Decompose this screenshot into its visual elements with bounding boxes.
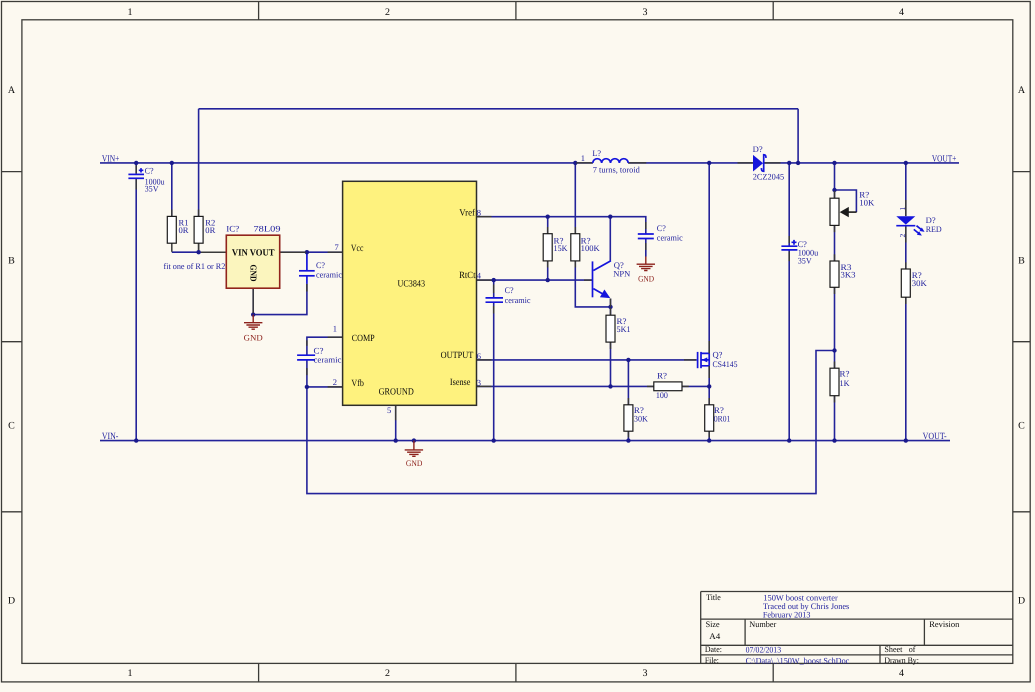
zone tick bottom 3|4 [772, 663, 774, 682]
wire pot to R3 [834, 225, 836, 261]
svg-text:VIN VOUT: VIN VOUT [232, 248, 275, 258]
wire RtCt rail [477, 279, 593, 281]
svg-text:2: 2 [898, 234, 907, 238]
svg-text:B: B [8, 256, 15, 267]
wire top loop left drop to R2 [198, 109, 200, 217]
junction (834.5,190) [832, 188, 836, 192]
svg-text:C?: C? [145, 165, 154, 175]
svg-text:4: 4 [899, 668, 904, 679]
svg-text:0R: 0R [179, 225, 189, 235]
svg-text:C?: C? [316, 260, 325, 270]
wire Vcc net 78L09 to UC3843 [280, 251, 343, 253]
svg-text:1: 1 [128, 668, 133, 679]
svg-text:C: C [1018, 421, 1025, 432]
wire R3 bottom to R1K [834, 287, 836, 368]
zone tick right B|C [1013, 341, 1030, 343]
wire inductor to diode [628, 162, 753, 164]
svg-text:Revision: Revision [929, 619, 960, 629]
svg-text:8: 8 [477, 208, 481, 218]
zone labels left [8, 85, 16, 607]
svg-text:C?: C? [657, 223, 666, 233]
inductor L1 7 turns toroid [576, 148, 646, 175]
svg-text:3K3: 3K3 [841, 270, 856, 280]
svg-text:GND: GND [249, 265, 259, 282]
wire input cap top lead [135, 163, 137, 174]
wire R1 top lead [171, 163, 173, 217]
wire VOUT+ rail [764, 162, 960, 164]
svg-text:Size: Size [706, 619, 720, 629]
svg-text:COMP: COMP [352, 334, 375, 344]
svg-text:C?: C? [505, 285, 514, 295]
zone tick top 3|4 [772, 2, 774, 20]
svg-text:R?: R? [657, 371, 667, 381]
wire top loop horizontal [199, 108, 799, 110]
capacitor C1 input electrolytic 1000u 35V [128, 165, 165, 193]
zone tick bottom 1|2 [258, 663, 260, 682]
resistor R? 5K1 [606, 308, 631, 349]
junction (709.2,386.4) [707, 384, 711, 388]
wire R15K bottom lead [547, 261, 549, 280]
svg-text:Drawn By:: Drawn By: [884, 655, 919, 665]
junction (905.8,440.6) [904, 438, 908, 442]
wire NPN collector to Vref [609, 217, 611, 261]
svg-text:D?: D? [753, 144, 763, 154]
wire OUTPUT rail to gate [477, 359, 697, 361]
svg-text:GND: GND [638, 274, 654, 284]
zone tick bottom 2|3 [515, 663, 517, 682]
junction (547.7,216.7) [546, 215, 550, 219]
svg-text:0R: 0R [205, 225, 215, 235]
svg-text:Vref: Vref [459, 208, 475, 218]
svg-text:2CZ2045: 2CZ2045 [753, 172, 785, 182]
wire R1 bottom to 78L09 VIN [172, 251, 199, 253]
svg-text:NPN: NPN [613, 268, 630, 278]
zone labels bottom [128, 668, 905, 679]
capacitor C? ceramic RtCt [486, 285, 531, 314]
wire Vref rail [477, 217, 646, 234]
junction (575.3,162.9) [573, 161, 577, 165]
svg-text:B: B [1018, 256, 1025, 267]
resistor R? 30K LED chain [901, 262, 927, 304]
wire output cap top lead [788, 163, 790, 246]
transistor Q? CS4145 MOSFET [684, 341, 738, 378]
wire LED top lead [905, 163, 907, 216]
junction (628.4,440.6) [626, 438, 630, 442]
svg-text:C:\Data\..\150W_boost.SchDoc: C:\Data\..\150W_boost.SchDoc [746, 655, 850, 665]
zone tick left C|D [2, 511, 22, 513]
junction (198.6,252.2) [196, 250, 200, 254]
wire input cap bottom lead to VIN- rail [135, 179, 137, 441]
zone tick top 1|2 [258, 2, 260, 20]
junction (610.3,216.7) [608, 215, 612, 219]
wire UC3843 pin5 to ground [395, 405, 397, 440]
resistor R? 100K [571, 227, 601, 268]
junction (306.9,252.2) [305, 250, 309, 254]
wire R5K1 bottom to Isense [610, 342, 612, 386]
junction (171.8,162.9) [170, 161, 174, 165]
svg-text:3: 3 [643, 7, 648, 18]
wire 78L09 GND pin [252, 288, 254, 314]
junction (253.2,314.6) [251, 312, 255, 316]
wire Vcc bypass cap top [306, 253, 308, 271]
svg-text:A4: A4 [709, 631, 721, 641]
wire LED cathode to R30K [905, 227, 907, 269]
wire R2 bottom lead [198, 243, 200, 252]
svg-text:30K: 30K [912, 278, 928, 288]
svg-text:OUTPUT: OUTPUT [441, 351, 474, 361]
wire Vcc bypass cap bottom [306, 276, 308, 284]
svg-text:D: D [8, 596, 15, 607]
wire Vref cap to ground [645, 238, 647, 256]
svg-text:ceramic: ceramic [657, 233, 683, 243]
wire MOSFET drain to rail [708, 163, 710, 354]
svg-text:1K: 1K [840, 378, 851, 388]
junction (798.1,162.9) [796, 161, 800, 165]
svg-text:Date:: Date: [705, 644, 722, 654]
svg-text:Isense: Isense [450, 378, 471, 388]
wire R1K bottom lead [834, 396, 836, 441]
junction (547.7,280.1) [546, 278, 550, 282]
svg-text:5K1: 5K1 [617, 324, 631, 334]
zone tick right C|D [1013, 511, 1030, 513]
svg-text:GND: GND [406, 458, 423, 468]
svg-text:Vfb: Vfb [351, 379, 364, 389]
svg-text:VOUT+: VOUT+ [932, 154, 957, 164]
junction (709.2,162.9) [707, 161, 711, 165]
wire VIN+ rail [100, 162, 593, 164]
svg-text:1: 1 [581, 153, 585, 163]
wire COMP cap to Vfb [306, 360, 308, 387]
svg-text:Q?: Q? [713, 349, 723, 359]
wire output cap bottom lead [788, 251, 790, 441]
diode D? 2CZ2045 [738, 144, 785, 182]
transistor Q? NPN [584, 260, 630, 307]
svg-text:C: C [8, 421, 15, 432]
wire COMP pin [307, 337, 343, 355]
junction (834.5,440.6) [832, 438, 836, 442]
title block frame [701, 592, 1013, 664]
svg-text:7 turns, toroid: 7 turns, toroid [593, 164, 641, 174]
svg-text:fit one of R1 or R2: fit one of R1 or R2 [164, 261, 226, 271]
svg-text:1: 1 [128, 7, 133, 18]
svg-text:2: 2 [385, 668, 390, 679]
zone tick left A|B [2, 171, 22, 173]
capacitor C? ceramic COMP [297, 340, 342, 375]
junction (789.2,162.9) [787, 161, 791, 165]
junction (834.5,350.5) [832, 348, 836, 352]
junction (493.7,440.6) [492, 438, 496, 442]
svg-text:GROUND: GROUND [379, 387, 414, 397]
capacitor C? ceramic Vref bypass [638, 222, 683, 250]
title block values [746, 593, 850, 666]
svg-text:File:: File: [705, 655, 719, 665]
wire top loop right drop to VOUT+ [797, 109, 799, 163]
wire MOSFET source to R0R01 [708, 366, 710, 405]
svg-text:100: 100 [656, 390, 668, 400]
svg-text:30K: 30K [634, 413, 649, 423]
junction (413.9,440.6) [412, 438, 416, 442]
wire R30K bottom lead [627, 431, 629, 440]
svg-text:Number: Number [749, 619, 776, 629]
zone labels top [128, 7, 905, 18]
svg-text:1: 1 [898, 207, 907, 211]
wire OUTPUT branch down to R30K [627, 360, 629, 405]
svg-text:UC3843: UC3843 [398, 280, 426, 290]
svg-text:2: 2 [385, 7, 390, 18]
svg-text:IC?: IC? [226, 223, 239, 233]
svg-text:VOUT-: VOUT- [923, 432, 947, 442]
ground symbol GND at Vref cap [637, 257, 655, 284]
wire R30K to VOUT- rail [905, 297, 907, 440]
junction (610.5,306.9) [608, 305, 612, 309]
svg-text:ceramic: ceramic [505, 295, 531, 305]
svg-text:35V: 35V [798, 256, 813, 266]
svg-text:7: 7 [335, 242, 339, 252]
svg-text:CS4145: CS4145 [713, 359, 738, 369]
svg-text:6: 6 [477, 351, 481, 361]
title block labels [705, 592, 960, 665]
resistor R? 30K left [624, 398, 649, 438]
junction (306.9,386.9) [305, 385, 309, 389]
svg-text:2: 2 [333, 377, 337, 387]
svg-text:5: 5 [387, 405, 391, 415]
resistor R? 0R01 [705, 398, 731, 438]
svg-text:A: A [8, 85, 16, 96]
svg-text:ceramic: ceramic [314, 355, 342, 365]
svg-text:of: of [909, 644, 916, 654]
resistor R? 15K [543, 227, 568, 268]
ground symbol GND at UC3843 pin5 [405, 441, 423, 469]
wire RtCt cap top lead [493, 280, 495, 297]
svg-text:35V: 35V [145, 183, 160, 193]
svg-text:D: D [1018, 596, 1025, 607]
svg-text:VIN+: VIN+ [102, 154, 120, 164]
junction (395.7,440.6) [394, 438, 398, 442]
svg-text:10K: 10K [859, 197, 875, 207]
op-amp U? UC3843 controller [328, 181, 492, 420]
wire feedback run [307, 351, 835, 494]
svg-text:VIN-: VIN- [102, 432, 119, 442]
wire R100K bottom to emitter node [575, 261, 610, 307]
svg-text:4: 4 [899, 7, 904, 18]
junction (136.2,162.9) [134, 161, 138, 165]
svg-text:3: 3 [643, 668, 648, 679]
svg-text:L?: L? [592, 148, 601, 158]
svg-text:RtCt: RtCt [459, 271, 476, 281]
wire R15K top lead [547, 217, 549, 234]
junction (136.2,440.6) [134, 438, 138, 442]
svg-text:100K: 100K [581, 243, 601, 253]
junction (628.4,359.9) [626, 358, 630, 362]
svg-text:ceramic: ceramic [316, 270, 342, 280]
resistor R? 1K [830, 362, 850, 403]
wire VIN- rail [100, 440, 950, 442]
wire Isense rail [477, 385, 654, 387]
wire pot top lead [834, 163, 836, 198]
regulator IC? 78L09 [226, 223, 305, 313]
wire R0R01 bottom lead [708, 431, 710, 440]
svg-text:February 2013: February 2013 [763, 610, 811, 620]
svg-text:1: 1 [333, 324, 337, 334]
resistor R? 100 horizontal [647, 371, 689, 401]
svg-text:4: 4 [477, 271, 482, 281]
svg-text:Vcc: Vcc [351, 244, 364, 254]
svg-text:15K: 15K [554, 243, 569, 253]
zone tick left B|C [2, 341, 22, 343]
wire VIN+ to R100K [574, 163, 576, 234]
svg-text:Sheet: Sheet [884, 644, 903, 654]
zone labels right [1018, 85, 1026, 607]
zone tick right A|B [1013, 171, 1030, 173]
svg-text:3: 3 [477, 377, 481, 387]
svg-text:78L09: 78L09 [254, 223, 281, 233]
junction (905.8,162.9) [904, 161, 908, 165]
resistor R1 0R [167, 210, 189, 252]
capacitor C? ceramic Vcc bypass [299, 260, 342, 292]
junction (709.2,440.6) [707, 438, 711, 442]
ground symbol GND under 78L09 [244, 315, 263, 343]
wire R100 right to source node [682, 385, 709, 387]
capacitor C? output electrolytic 1000u 35V [781, 236, 819, 266]
svg-text:RED: RED [926, 224, 942, 234]
wire RtCt cap bottom to VIN- rail [493, 302, 495, 440]
junction (789.2,440.6) [787, 438, 791, 442]
resistor R3 3K3 [830, 254, 856, 294]
svg-text:GND: GND [244, 333, 263, 343]
wire NPN emitter node to R5K1 [610, 299, 612, 316]
svg-text:07/02/2013: 07/02/2013 [746, 644, 782, 654]
svg-text:Title: Title [706, 592, 721, 602]
wire pot wiper [835, 190, 857, 212]
svg-text:0R01: 0R01 [714, 413, 730, 423]
resistor R2 0R [194, 210, 216, 251]
LED D? RED [896, 200, 941, 243]
zone tick top 2|3 [515, 2, 517, 20]
svg-text:A: A [1018, 85, 1026, 96]
junction (493.7,280.1) [492, 278, 496, 282]
resistor R? 10K potentiometer [830, 190, 875, 233]
junction (834.5,162.9) [832, 161, 836, 165]
junction (610.5,386.4) [608, 384, 612, 388]
wire Vfb pin [307, 386, 343, 388]
